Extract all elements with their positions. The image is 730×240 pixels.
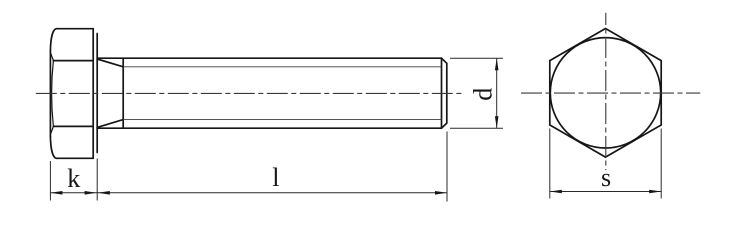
svg-text:d: d — [469, 88, 498, 101]
svg-text:k: k — [67, 164, 80, 193]
svg-text:s: s — [601, 163, 611, 192]
svg-text:l: l — [272, 163, 279, 192]
